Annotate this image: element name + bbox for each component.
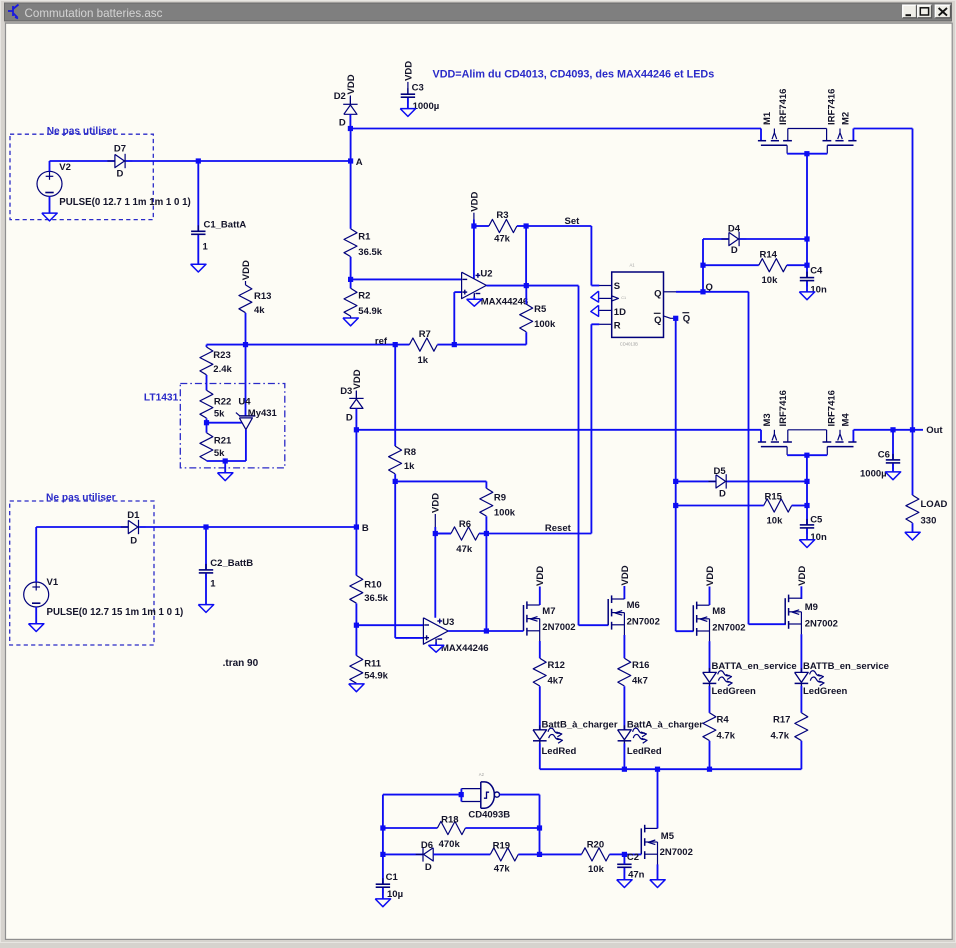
dash-dot box LT1431 — [180, 384, 284, 468]
value C2 47n — [628, 869, 645, 880]
wire D6 right — [433, 853, 490, 855]
wire R1 to junction — [350, 257, 352, 280]
value C6 1000u — [860, 469, 887, 480]
value U4 My431 — [248, 408, 278, 419]
wire D5 left — [676, 480, 716, 482]
wire R15 left — [676, 505, 764, 507]
wire Qbar down to M8 gate — [676, 318, 694, 631]
wire R17 to rail — [800, 741, 802, 769]
capacitor C2 (gate) — [617, 858, 631, 873]
svg-text:D: D — [339, 118, 346, 129]
nmos M8 — [693, 602, 709, 642]
svg-text:R15: R15 — [765, 491, 783, 502]
wire junction to R2 — [350, 279, 352, 288]
ground below C2 — [617, 880, 632, 888]
flip-flop U1 CD4013 box — [599, 272, 676, 337]
nmos M5 — [641, 825, 657, 865]
wire C1_BattA top — [197, 161, 199, 231]
value C3 1000u — [413, 101, 440, 112]
label M8 — [712, 606, 725, 617]
wire U2out to M6 gate — [526, 286, 608, 626]
wire Reset to FFR vertical — [486, 533, 591, 535]
value LOAD 330 — [921, 516, 937, 527]
junction rail/R4 — [707, 767, 712, 772]
label R17 — [773, 714, 790, 725]
svg-text:100k: 100k — [534, 319, 556, 330]
wire Q out — [676, 291, 703, 293]
diode D4 — [721, 232, 746, 246]
label C3 — [412, 83, 424, 94]
wire R14 left — [703, 264, 759, 266]
wire M2 to right rail — [854, 128, 913, 130]
svg-text:M1: M1 — [762, 111, 773, 125]
wire R13 to ref line — [245, 313, 247, 345]
svg-text:R14: R14 — [760, 250, 778, 261]
wire LedGreenB to R17 — [800, 686, 802, 713]
tiny label U5 — [479, 772, 485, 777]
svg-text:VDD: VDD — [469, 192, 480, 212]
svg-text:330: 330 — [921, 516, 937, 527]
svg-text:R9: R9 — [494, 492, 506, 503]
svg-text:54.9k: 54.9k — [364, 670, 388, 681]
svg-text:Q: Q — [654, 288, 661, 299]
svg-text:LedRed: LedRed — [627, 746, 662, 757]
wire R13 to U4 — [245, 345, 247, 416]
svg-text:R10: R10 — [364, 579, 381, 590]
label BATTA_en_service — [712, 661, 797, 672]
label node A — [356, 157, 363, 168]
junction Out rail — [910, 427, 915, 432]
junction Qbar/R15 — [673, 503, 678, 508]
svg-text:U4: U4 — [238, 396, 251, 407]
wire R22 to junction — [206, 418, 208, 422]
junction C6/Out — [890, 427, 895, 432]
pmos pair M1 M2 — [758, 129, 857, 154]
wire C5 bottom — [806, 529, 808, 540]
flag VDD above U3 — [431, 493, 442, 527]
value R16 4k7 — [632, 676, 648, 687]
junction U3out/M7gate — [484, 628, 489, 633]
capacitor C6 — [886, 454, 900, 469]
svg-text:R17: R17 — [773, 714, 790, 725]
label node B — [362, 523, 369, 534]
junction VDD/R3/U2V+ — [471, 223, 476, 228]
svg-text:M7: M7 — [542, 606, 555, 617]
diode D7 — [107, 154, 132, 168]
value R2 54.9k — [358, 306, 382, 317]
wire C2 bottom — [623, 868, 625, 880]
capacitor C1 (osc) — [376, 878, 390, 893]
junction U4 anode/ground — [223, 458, 228, 463]
wire node A horizontal — [198, 160, 350, 162]
led LedRed (BattA) — [618, 725, 648, 747]
value M4 IRF7416 — [827, 390, 838, 426]
label M3 — [762, 413, 773, 426]
svg-text:4k7: 4k7 — [632, 676, 648, 687]
dashed box Ne pas utiliser (A) — [10, 134, 153, 219]
wire M3M4 gate link — [787, 454, 827, 456]
svg-text:D7: D7 — [114, 143, 126, 154]
resistor R20 — [582, 848, 610, 861]
wire U3 V+ supply — [434, 527, 436, 618]
junction R7/U2+ — [452, 342, 457, 347]
svg-text:VDD: VDD — [535, 566, 546, 586]
svg-text:5k: 5k — [214, 448, 225, 459]
label D4 pin D — [731, 245, 738, 256]
nand gate U5 CD4093B — [461, 782, 499, 808]
ground below C1 — [375, 899, 390, 907]
flag VDD above M6 — [620, 565, 631, 599]
svg-text:D6: D6 — [421, 840, 433, 851]
wire A down to R1 — [350, 131, 352, 229]
svg-text:PULSE(0 12.7 15 1m 1m 1 0 1): PULSE(0 12.7 15 1m 1m 1 0 1) — [47, 607, 184, 618]
label node Out — [926, 425, 943, 436]
label LedGreen B — [803, 686, 848, 697]
wire U3 plus feed — [395, 481, 423, 638]
label C2_BattB — [210, 558, 253, 569]
wire ground stub U4 — [224, 461, 226, 473]
nmos M6 — [608, 595, 624, 635]
value R15 10k — [767, 516, 784, 527]
wire U2 plus feed — [454, 292, 461, 345]
resistor R4 — [703, 713, 716, 741]
svg-text:R23: R23 — [213, 350, 230, 361]
svg-text:C6: C6 — [878, 449, 890, 460]
wire to R11 — [355, 625, 357, 655]
label R21 — [214, 436, 232, 447]
junction Qbar/D5 — [673, 479, 678, 484]
ground below V1 — [29, 624, 44, 632]
label C2 — [627, 852, 639, 863]
resistor LOAD — [906, 495, 919, 523]
svg-text:C2: C2 — [627, 852, 639, 863]
svg-text:Ne pas utiliser: Ne pas utiliser — [47, 126, 117, 137]
resistor R5 — [520, 286, 533, 332]
wire M5 gate — [624, 853, 641, 855]
value R9 100k — [494, 507, 516, 518]
label R15 — [765, 491, 783, 502]
svg-text:1k: 1k — [404, 461, 415, 472]
wire R9 bottom — [485, 516, 487, 533]
label LOAD — [921, 499, 948, 510]
wire C1 top — [382, 854, 384, 884]
flag VDD above M7 — [535, 566, 546, 592]
label node ref — [375, 336, 388, 347]
svg-text:R13: R13 — [254, 291, 271, 302]
label R9 — [494, 492, 506, 503]
wire V1 top pin — [36, 527, 128, 582]
svg-text:2N7002: 2N7002 — [712, 622, 745, 633]
ground below C1_BattA — [191, 264, 206, 272]
svg-text:IRF7416: IRF7416 — [827, 89, 838, 125]
wire U4 ref input — [207, 422, 242, 424]
led LedGreen (A) — [703, 668, 733, 690]
value M6 2N7002 — [627, 616, 660, 627]
wire right rail down — [912, 129, 914, 430]
nmos M9 — [785, 595, 801, 635]
svg-text:D2: D2 — [334, 91, 346, 102]
diode D2 — [343, 97, 357, 122]
svg-text:LedRed: LedRed — [542, 746, 577, 757]
svg-text:R6: R6 — [459, 519, 471, 530]
svg-text:LOAD: LOAD — [921, 499, 948, 510]
wire C4 bottom — [806, 282, 808, 292]
wire M3M4 gates down — [806, 455, 808, 481]
value R17 4.7k — [771, 730, 790, 741]
svg-text:LedGreen: LedGreen — [712, 686, 757, 697]
label R3 — [496, 210, 508, 221]
svg-text:IRF7416: IRF7416 — [778, 89, 789, 125]
dashed box Ne pas utiliser (B) — [10, 501, 154, 645]
svg-text:10k: 10k — [767, 516, 784, 527]
wire Set line — [526, 226, 599, 286]
wire M7 gate — [486, 630, 523, 632]
svg-text:IRF7416: IRF7416 — [827, 390, 838, 426]
value R12 4k7 — [548, 676, 564, 687]
junction R9/Reset — [484, 531, 489, 536]
value C5 10n — [810, 532, 827, 543]
wire osc left vertical — [382, 795, 384, 855]
svg-text:C2_BattB: C2_BattB — [210, 558, 253, 569]
label D7 pin D — [117, 168, 124, 179]
comment VDD=Alim note — [433, 69, 715, 81]
wire NAND input link — [460, 789, 462, 802]
svg-text:1000µ: 1000µ — [413, 101, 440, 112]
svg-text:M6: M6 — [627, 600, 640, 611]
op-amp U2 — [462, 272, 487, 298]
svg-text:MAX44246: MAX44246 — [441, 643, 489, 654]
ground below U3 — [428, 645, 443, 652]
svg-text:D5: D5 — [714, 466, 727, 477]
resistor R9 — [480, 481, 493, 516]
label M4 — [840, 413, 851, 427]
svg-text:IRF7416: IRF7416 — [778, 390, 789, 426]
svg-text:VDD: VDD — [241, 260, 252, 280]
float marker clk input — [591, 291, 599, 302]
svg-text:A1: A1 — [630, 263, 636, 268]
svg-text:R16: R16 — [632, 660, 649, 671]
label R12 — [548, 660, 565, 671]
wire M9 source — [800, 634, 802, 672]
wire LedGreenA to R4 — [709, 686, 711, 713]
diode D5 — [709, 474, 734, 488]
junction D1/C2_BattB — [203, 524, 208, 529]
svg-text:1: 1 — [203, 241, 209, 252]
svg-text:C1: C1 — [621, 296, 626, 300]
ground below C6 — [885, 472, 900, 480]
svg-text:D: D — [719, 489, 726, 500]
label FF pin Qbar — [654, 313, 662, 326]
label R2 — [358, 291, 370, 302]
value U2 MAX44246 — [481, 296, 529, 307]
junction M3M4 gates — [804, 453, 809, 458]
label FF pin S — [614, 281, 620, 292]
svg-text:U3: U3 — [442, 617, 454, 628]
label U3 — [442, 617, 454, 628]
value R6 47k — [456, 544, 473, 555]
label M1 — [762, 111, 773, 125]
wire C2 top — [623, 854, 625, 864]
wire V2 top pin — [50, 161, 115, 171]
value C2_BattB 1 — [210, 579, 216, 590]
wire C2_BattB bottom — [205, 574, 207, 605]
wire ref to R5 — [454, 344, 526, 346]
wire R3 junction down to U2out — [525, 226, 527, 286]
label D1 pin D — [130, 536, 137, 547]
label U2 — [480, 268, 492, 279]
svg-text:47k: 47k — [456, 544, 473, 555]
value R4 4.7k — [717, 730, 736, 741]
flag VDD above R3/U2 — [469, 192, 480, 220]
value R1 36.5k — [358, 247, 382, 258]
svg-text:U2: U2 — [480, 268, 492, 279]
comment Ne pas utiliser (B) — [46, 493, 116, 504]
wire M5 drain — [657, 769, 659, 828]
svg-text:.tran 90: .tran 90 — [223, 658, 259, 669]
label R19 — [493, 841, 510, 852]
wire U2 minus input — [351, 278, 462, 280]
wire M6 source — [623, 635, 625, 658]
label M6 — [627, 600, 640, 611]
wire R6 right — [479, 533, 486, 535]
wire C3 bottom — [407, 98, 409, 109]
junction Q — [700, 289, 705, 294]
label M9 — [805, 602, 818, 613]
svg-text:R4: R4 — [717, 714, 730, 725]
nmos M7 — [524, 601, 540, 641]
svg-text:10k: 10k — [588, 864, 605, 875]
ground below M5 — [650, 880, 665, 888]
junction R18 right — [537, 825, 542, 830]
svg-text:PULSE(0 12.7 1 1m 1m 1 0 1): PULSE(0 12.7 1 1m 1m 1 0 1) — [59, 197, 190, 208]
wire R18 left — [383, 827, 438, 829]
wire M4 to Out — [854, 429, 924, 431]
resistor R19 — [490, 848, 518, 861]
svg-text:470k: 470k — [439, 839, 461, 850]
value M9 2N7002 — [805, 619, 838, 630]
capacitor C4 — [800, 272, 814, 287]
svg-text:M8: M8 — [712, 606, 725, 617]
value C1_BattA 1 — [203, 241, 209, 252]
svg-text:VDD: VDD — [620, 565, 631, 585]
junction M1M2 gates — [804, 151, 809, 156]
junction rail/LedA — [622, 767, 627, 772]
resistor R21 — [200, 433, 213, 461]
wire R4 to rail — [709, 741, 711, 769]
op-amp U3 — [423, 618, 448, 644]
svg-text:V2: V2 — [59, 162, 71, 173]
junction Qbar — [673, 316, 678, 321]
svg-text:My431: My431 — [248, 408, 278, 419]
wire D1 to node — [139, 526, 206, 528]
junction R20/C2 — [622, 852, 627, 857]
diode D6 — [416, 847, 441, 861]
label R23 — [213, 350, 230, 361]
label D3 pin D — [346, 412, 353, 423]
wire R12 to LedB — [539, 686, 541, 730]
wire U3 minus input — [356, 624, 423, 626]
junction ref/R13 — [243, 342, 248, 347]
wire C6 top — [892, 430, 894, 460]
value R18 470k — [439, 839, 461, 850]
svg-text:A2: A2 — [479, 772, 485, 777]
label D6 pin D — [425, 862, 432, 873]
label LedGreen A — [712, 686, 757, 697]
resistor R8 — [389, 345, 402, 474]
junction node B — [354, 524, 359, 529]
wire M1M2 gate link — [787, 153, 827, 155]
resistor R3 — [474, 219, 517, 232]
label R8 — [404, 447, 416, 458]
wire M7 drain — [539, 592, 541, 605]
svg-text:M9: M9 — [805, 602, 818, 613]
svg-text:S: S — [614, 281, 620, 292]
label D5 — [714, 466, 727, 477]
junction D4/C4 vert — [804, 236, 809, 241]
svg-text:2.4k: 2.4k — [213, 364, 232, 375]
flag VDD above D2 — [346, 74, 357, 104]
wire R3 right — [517, 225, 526, 227]
label V1 — [47, 577, 59, 588]
svg-text:VDD: VDD — [346, 74, 357, 94]
wire U2 V- stub — [473, 297, 475, 299]
wire V2 bottom pin — [49, 196, 51, 213]
value R3 47k — [494, 233, 511, 244]
svg-text:36.5k: 36.5k — [358, 247, 382, 258]
label FF pin R — [614, 320, 621, 331]
svg-text:VDD=Alim du CD4013, CD4093, de: VDD=Alim du CD4013, CD4093, des MAX44246… — [433, 69, 715, 81]
node junction D7/C1_BattA — [196, 158, 201, 163]
svg-text:VDD: VDD — [403, 61, 414, 81]
svg-text:R22: R22 — [214, 396, 231, 407]
wire C1 bottom — [382, 888, 384, 899]
svg-text:D: D — [731, 245, 738, 256]
value R11 54.9k — [364, 670, 388, 681]
tiny label CD4013B — [620, 341, 638, 346]
svg-text:R1: R1 — [358, 232, 371, 243]
wire R7 right — [437, 344, 454, 346]
svg-text:D1: D1 — [127, 510, 140, 521]
wire R15 right — [792, 505, 807, 507]
label R7 — [419, 329, 431, 340]
label D4 — [728, 224, 741, 235]
svg-text:1000µ: 1000µ — [860, 469, 887, 480]
ground below U4 — [218, 473, 233, 481]
capacitor C5 — [800, 519, 814, 534]
svg-text:V1: V1 — [47, 577, 59, 588]
svg-text:R7: R7 — [419, 329, 431, 340]
label node Qbar — [682, 313, 690, 325]
label FF pin Q — [654, 288, 661, 299]
label LedRed B — [542, 746, 577, 757]
wire D7 to node — [126, 160, 198, 162]
value C4 10n — [810, 284, 827, 295]
svg-text:4k: 4k — [254, 305, 265, 316]
svg-text:VDD: VDD — [705, 566, 716, 586]
ground below R11 — [349, 684, 364, 692]
svg-text:BattA_à_charger: BattA_à_charger — [627, 719, 703, 730]
wire R9 to U3out line — [485, 534, 487, 632]
svg-text:BATTA_en_service: BATTA_en_service — [712, 661, 797, 672]
wire R18 right — [465, 827, 539, 829]
label node Reset — [545, 523, 572, 534]
wire M5 source — [657, 864, 659, 879]
diode D3 — [349, 391, 363, 416]
label R1 — [358, 232, 371, 243]
label R22 — [214, 396, 231, 407]
junction R15/C5 — [804, 503, 809, 508]
svg-text:2N7002: 2N7002 — [660, 847, 693, 858]
